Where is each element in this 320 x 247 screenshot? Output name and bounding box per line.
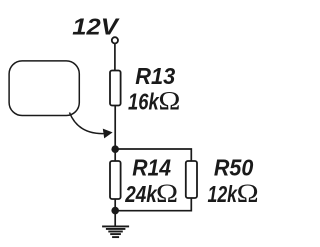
svg-text:Ω: Ω — [156, 179, 178, 208]
ohm symbol for R14 value — [156, 179, 178, 208]
wire terminal to R13 — [114, 44, 116, 71]
svg-text:R13: R13 — [135, 63, 175, 89]
ohm symbol for R13 value — [158, 87, 180, 116]
svg-text:16k: 16k — [128, 88, 160, 114]
wire node A to R50 top — [115, 149, 191, 162]
wire node A to R14 — [114, 149, 116, 162]
svg-text:Ω: Ω — [158, 87, 180, 116]
node B junction dot — [111, 207, 119, 215]
resistor R13 — [110, 71, 121, 106]
callout arrowhead — [103, 129, 113, 139]
svg-text:Ω: Ω — [237, 179, 259, 208]
wire R13 to node A — [114, 106, 116, 150]
ground — [102, 226, 129, 237]
12V terminal circle — [112, 37, 118, 43]
wire node B to ground — [114, 211, 116, 226]
resistor R14 — [110, 161, 121, 199]
callout bubble — [9, 61, 79, 116]
ohm symbol for R50 value — [237, 179, 259, 208]
svg-text:12k: 12k — [208, 181, 239, 207]
wire R14 to node B — [114, 199, 116, 211]
resistor R50 — [186, 161, 197, 198]
svg-text:12V: 12V — [72, 13, 120, 39]
callout leader curve — [70, 113, 104, 134]
wire R50 bottom to node B — [115, 198, 191, 211]
svg-text:24k: 24k — [124, 181, 158, 207]
svg-text:R50: R50 — [214, 155, 253, 181]
node A junction dot — [111, 145, 119, 153]
svg-text:R14: R14 — [132, 155, 171, 181]
